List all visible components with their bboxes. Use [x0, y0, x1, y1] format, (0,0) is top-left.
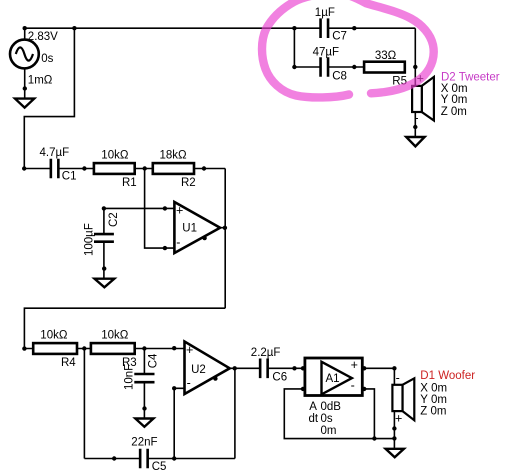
svg-text:10kΩ: 10kΩ	[40, 330, 68, 342]
svg-text:A1: A1	[326, 373, 340, 385]
wire jog from top net down-left to C1 row	[24, 28, 74, 168]
capacitor C2	[94, 234, 114, 242]
wire U2 output to C6	[230, 367, 260, 369]
speaker D1 woofer body	[392, 385, 402, 411]
svg-text:47µF: 47µF	[313, 46, 339, 58]
speaker D1 woofer horn	[403, 378, 415, 420]
svg-text:-: -	[187, 376, 191, 390]
junction C2 ground node	[102, 266, 106, 270]
ground below tweeter	[406, 137, 424, 146]
wire C2 stem	[103, 208, 105, 278]
annotation marker circle (pink highlighter)	[262, 0, 434, 97]
svg-text:18kΩ: 18kΩ	[160, 150, 188, 162]
junction R3 C4 node	[142, 346, 146, 350]
junction C8 right pin	[352, 65, 356, 69]
junction U2 minus pin	[172, 386, 176, 390]
svg-text:dt: dt	[309, 413, 319, 425]
ground below woofer	[386, 449, 404, 457]
junction C6 right pin	[292, 366, 296, 370]
wire source bottom to ground	[24, 68, 26, 98]
wire C1 row segments	[24, 168, 225, 170]
wire tweeter vertical	[414, 28, 416, 137]
wire C6 to A1 plus input	[268, 367, 305, 369]
junction C1 left node	[22, 166, 26, 170]
junction C4 ground node	[142, 406, 146, 410]
ground below source	[15, 99, 34, 108]
wire source top stub	[24, 28, 26, 40]
junction source ground node	[23, 86, 27, 90]
svg-text:U1: U1	[182, 223, 197, 235]
junction top jog node	[72, 26, 76, 30]
svg-text:C7: C7	[332, 31, 347, 43]
svg-text:Z 0m: Z 0m	[420, 406, 446, 418]
capacitor C4	[134, 374, 154, 382]
wire A1 minus output down to bottom row	[362, 389, 374, 439]
svg-text:-: -	[396, 371, 400, 385]
wire bottom row of U1 stage	[24, 308, 225, 348]
junction U1 output node	[223, 226, 227, 230]
junction R2 right pin	[202, 166, 206, 170]
svg-text:1mΩ: 1mΩ	[28, 75, 53, 87]
svg-text:0s: 0s	[41, 53, 53, 65]
svg-text:C1: C1	[62, 171, 77, 183]
svg-text:R4: R4	[61, 357, 76, 369]
junction C7 C8 split	[292, 26, 296, 30]
wire top net from source to tweeter branch	[25, 27, 416, 29]
svg-text:D1 Woofer: D1 Woofer	[420, 370, 475, 382]
junction C7 right pin	[352, 26, 356, 30]
resistor R3	[91, 343, 135, 354]
svg-text:4.7µF: 4.7µF	[40, 147, 70, 159]
svg-text:+: +	[186, 343, 193, 357]
junction A1 minus output pin	[362, 387, 366, 391]
capacitor C8	[321, 57, 329, 77]
junction bottom row woofer ground	[392, 436, 396, 440]
gain block A1 inner triangle	[322, 362, 352, 395]
svg-text:Y 0m: Y 0m	[441, 94, 468, 106]
wire U2 minus stub and vertical to C5 row	[174, 388, 184, 458]
svg-text:100µF: 100µF	[83, 223, 95, 256]
junction U1 hypotenuse dot	[202, 236, 206, 240]
svg-text:+: +	[176, 204, 183, 218]
junction R4 R3 node	[82, 346, 86, 350]
svg-text:A: A	[309, 401, 317, 413]
svg-text:R2: R2	[181, 177, 196, 189]
junction U2 hypotenuse dot	[213, 376, 217, 380]
op-amp U1	[174, 202, 220, 253]
svg-text:1µF: 1µF	[315, 7, 335, 19]
wire A1 plus output to woofer	[362, 368, 394, 385]
svg-text:+: +	[351, 358, 358, 372]
junction U1 minus pin	[163, 246, 167, 250]
speaker D2 tweeter horn	[422, 77, 434, 121]
svg-text:C6: C6	[272, 371, 287, 383]
wire C5 row segments	[84, 458, 235, 460]
svg-text:C8: C8	[332, 70, 347, 82]
junction C1 R1 node	[82, 166, 86, 170]
junction U2 output node	[233, 366, 237, 370]
wire R4-R3 junction down to C5 row	[83, 349, 85, 459]
svg-text:22nF: 22nF	[131, 437, 157, 449]
ground below C4	[135, 419, 153, 427]
svg-text:C2: C2	[108, 212, 120, 227]
junction bottom row A1 minus	[372, 436, 376, 440]
svg-text:10kΩ: 10kΩ	[101, 330, 129, 342]
svg-text:0dB: 0dB	[321, 401, 342, 413]
capacitor C5	[140, 449, 148, 469]
wire U2 feedback vertical	[234, 368, 236, 458]
junction C2 top node	[102, 206, 106, 210]
svg-text:-: -	[176, 235, 180, 249]
junction tweeter ground node	[413, 125, 417, 129]
junction R1 R2 node	[143, 166, 147, 170]
capacitor C7	[321, 18, 329, 38]
wire R1-R2 junction down to U1 minus input	[145, 169, 175, 249]
wire U1 output	[220, 227, 225, 229]
gain block A1 box	[305, 358, 362, 396]
resistor R4	[33, 343, 77, 354]
svg-text:R1: R1	[122, 177, 137, 189]
junction C5 row dot	[112, 456, 116, 460]
ground below C2	[95, 279, 115, 288]
svg-text:D2 Tweeter: D2 Tweeter	[441, 71, 500, 83]
svg-text:Y 0m: Y 0m	[420, 394, 447, 406]
resistor R5	[364, 62, 405, 73]
junction A1 minus input pin	[301, 387, 305, 391]
wire R4 row segments	[24, 348, 184, 350]
svg-text:10nF: 10nF	[124, 364, 136, 390]
junction R5 tweeter node	[413, 65, 417, 69]
wire C8 row segments	[294, 28, 364, 67]
svg-text:U2: U2	[191, 364, 206, 376]
junction A1 plus input pin	[301, 366, 305, 370]
wire C2 top to U1 plus input	[104, 207, 174, 209]
voltage source V1	[10, 40, 39, 69]
wire right vertical R2 to bottom row	[224, 169, 226, 309]
resistor R1	[94, 163, 135, 174]
svg-text:33Ω: 33Ω	[375, 50, 397, 62]
capacitor C6	[260, 359, 268, 379]
junction U1 plus pin	[163, 206, 167, 210]
wire C4 stem	[143, 349, 145, 419]
junction C8 left pin	[292, 65, 296, 69]
svg-text:+: +	[395, 411, 402, 425]
wire A1 minus input loop to bottom row	[284, 389, 394, 439]
svg-text:0s: 0s	[321, 413, 333, 425]
wire woofer bottom to ground	[393, 411, 395, 449]
svg-text:C5: C5	[152, 461, 167, 473]
junction A1 plus output pin	[362, 366, 366, 370]
svg-text:-: -	[414, 111, 418, 125]
svg-text:0m: 0m	[321, 425, 337, 437]
svg-text:Z 0m: Z 0m	[441, 106, 467, 118]
junction woofer plus pin	[392, 426, 396, 430]
svg-text:2.83V: 2.83V	[28, 31, 58, 43]
junction top-left node	[23, 26, 27, 30]
speaker D2 tweeter body	[412, 86, 422, 112]
svg-text:X 0m: X 0m	[420, 382, 447, 394]
junction woofer top corner	[392, 366, 396, 370]
op-amp U2	[185, 342, 230, 395]
junction U2 plus pin	[172, 346, 176, 350]
junction C5 U2 minus node	[172, 456, 176, 460]
svg-text:C4: C4	[147, 353, 159, 368]
junction R4 left node	[22, 346, 26, 350]
capacitor C1	[51, 159, 59, 179]
resistor R2	[153, 163, 194, 174]
svg-text:10kΩ: 10kΩ	[101, 150, 129, 162]
svg-text:2.2µF: 2.2µF	[251, 347, 281, 359]
svg-text:-: -	[351, 379, 355, 393]
